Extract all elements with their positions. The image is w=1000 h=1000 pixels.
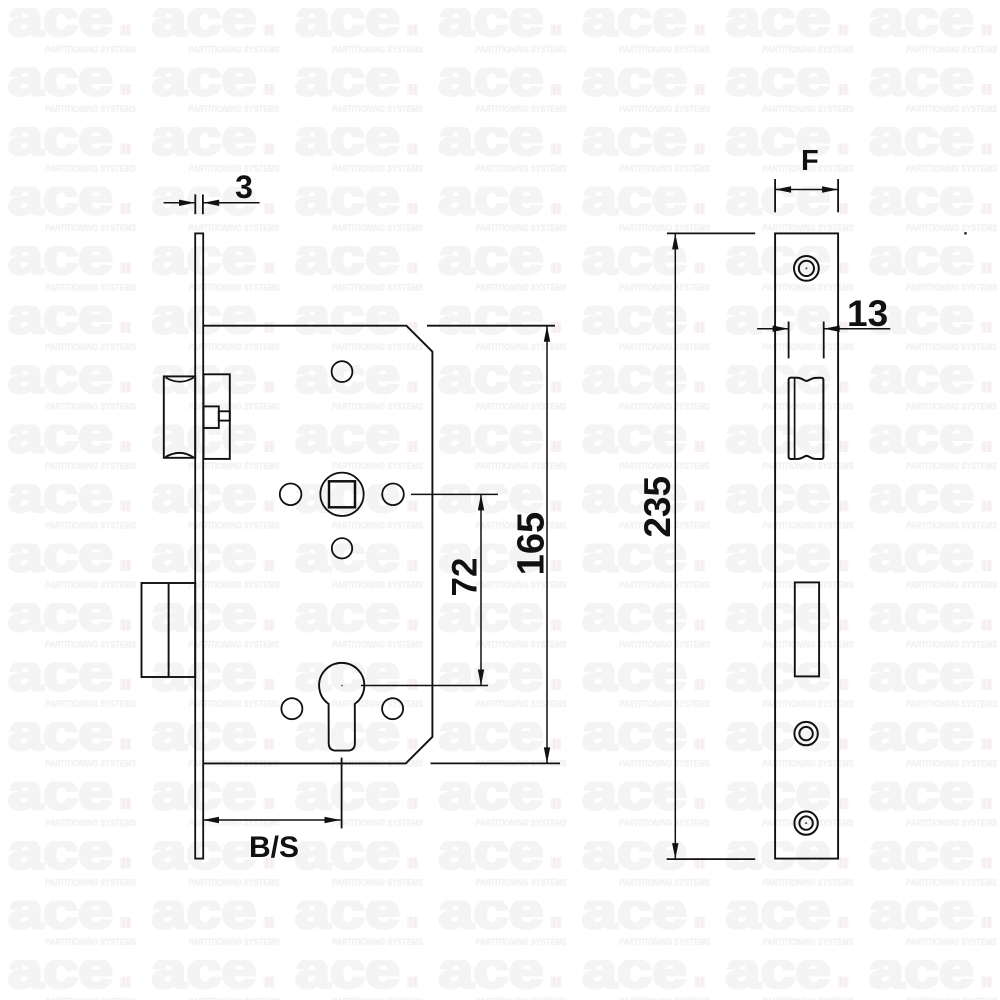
latch follower step small <box>219 411 230 420</box>
screw hole below spindle <box>332 538 352 558</box>
handle screw hole right <box>382 484 404 506</box>
leader from spindle to 72 dim <box>411 493 498 495</box>
dim 235: bottom extension line <box>667 858 756 860</box>
latch bolt head <box>164 376 195 457</box>
top screw hole inner <box>799 261 814 276</box>
latch housing behind faceplate <box>204 374 230 459</box>
lock case body outline <box>204 326 433 764</box>
B/S dimension line <box>203 819 341 821</box>
faceplate side view (left) <box>195 233 203 858</box>
leader from euro cylinder to 72 dim <box>361 685 488 687</box>
bottom screw hole outer <box>794 811 817 834</box>
svg-text:235: 235 <box>637 476 678 538</box>
deadbolt cutout front <box>795 582 819 676</box>
dim 235: vertical dimension line <box>674 233 676 859</box>
latch bolt top bevel curve <box>166 378 194 382</box>
deadbolt divider line <box>168 583 170 677</box>
faceplate front view (right) <box>775 233 838 858</box>
arrow F left <box>775 186 791 192</box>
arrow dim3 pointing right at left tick <box>179 200 195 206</box>
dim 13: right tick <box>823 322 825 359</box>
dim 13: left tick <box>788 322 790 359</box>
arrow 235 up <box>672 233 678 249</box>
arrow 235 down <box>672 843 678 859</box>
dim 13: right line <box>824 328 891 330</box>
spindle hub circle <box>320 473 363 516</box>
svg-text:3: 3 <box>235 169 253 205</box>
top screw hole outer <box>794 256 819 281</box>
latch face inner line <box>794 378 796 458</box>
euro cylinder profile <box>319 663 364 751</box>
dim 3: left tick <box>194 194 196 214</box>
bottom screw hole inner <box>799 816 812 829</box>
svg-text:13: 13 <box>847 293 888 334</box>
dim 165: bottom extension line <box>431 762 561 764</box>
arrow B/S left <box>203 817 219 823</box>
arrow 13 pointing left at right tick <box>824 326 840 332</box>
svg-text:165: 165 <box>510 512 552 575</box>
handle screw hole left <box>280 484 302 506</box>
dim 13: left line <box>757 328 789 330</box>
screw hole center dots <box>805 267 807 269</box>
B/S vertical extension line <box>341 758 343 829</box>
latch follower step large <box>204 406 219 428</box>
spindle square hole <box>329 481 355 507</box>
arrow 165 down <box>544 747 550 763</box>
dim F: left extension tick <box>774 179 776 212</box>
dim 3: right tick <box>202 194 204 214</box>
cylinder screw hole left <box>281 698 302 719</box>
svg-text:72: 72 <box>446 558 485 597</box>
arrow 72 down <box>478 670 484 686</box>
svg-text:F: F <box>801 145 819 177</box>
middle screw hole inner <box>799 727 812 740</box>
deadbolt body <box>142 583 196 677</box>
arrow 165 up <box>544 326 550 342</box>
dim 72: vertical dimension line <box>480 494 482 685</box>
arrow B/S right <box>325 817 341 823</box>
latch face cutout <box>789 378 824 459</box>
latch bolt bottom bevel curve <box>166 453 194 458</box>
arrow 13 pointing right at left tick <box>773 326 789 332</box>
screw hole top (side view) <box>332 361 353 382</box>
dim 165: top extension line <box>427 325 555 327</box>
dim F: right extension tick <box>837 179 839 212</box>
arrow dim3 pointing left at right tick <box>203 200 219 206</box>
stray speck <box>964 232 967 235</box>
cylinder screw hole right <box>382 698 403 719</box>
dim 3: left line <box>164 202 195 204</box>
middle screw hole outer <box>794 722 817 745</box>
dim 235: top extension line <box>667 232 755 234</box>
svg-text:B/S: B/S <box>249 831 299 864</box>
dim F: dimension line <box>775 189 838 191</box>
dim 165: vertical dimension line <box>546 326 548 764</box>
arrow F right <box>822 186 838 192</box>
arrow 72 up <box>478 494 484 510</box>
dim 3: right line <box>203 202 259 204</box>
